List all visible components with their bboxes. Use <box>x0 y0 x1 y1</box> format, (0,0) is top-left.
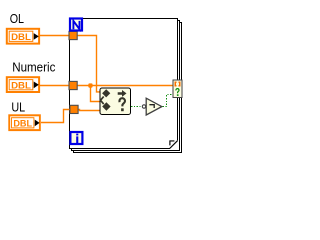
U1 arrow glyph <box>118 90 127 97</box>
terminal UL (DBL control) <box>9 115 40 130</box>
U1 less-than glyph <box>101 97 104 105</box>
for-loop corner fold mark <box>170 141 175 146</box>
terminal OL (DBL control) <box>7 29 39 44</box>
wire OL <box>39 36 100 92</box>
tunnel conditional glyph ? <box>176 89 179 94</box>
for-loop border <box>70 19 182 153</box>
N terminal (loop count) <box>70 19 82 31</box>
Not gate U2 <box>142 98 162 115</box>
In Range and Coerce U1 <box>100 88 131 115</box>
svg-text:UL: UL <box>11 100 25 115</box>
svg-text:Numeric: Numeric <box>12 59 56 74</box>
junction dot Numeric <box>88 83 92 87</box>
U1 upper diamond <box>102 89 110 97</box>
U1 lower diamond <box>102 102 110 110</box>
wire UL <box>41 110 100 123</box>
conditional indexing tunnel <box>173 80 182 98</box>
i terminal (loop iterator) <box>70 132 82 144</box>
terminal Numeric (DBL control) <box>7 77 39 92</box>
tunnel indexing glyph [] <box>175 82 181 87</box>
for-loop corner chamfer <box>170 141 178 149</box>
U2 not-sign glyph <box>149 105 154 108</box>
U1 question mark <box>119 98 125 106</box>
tunnel T1 (OL) <box>69 31 77 39</box>
wire Numeric <box>39 86 173 102</box>
boolean wire U1 to U2 <box>131 106 142 108</box>
boolean wire U2 to conditional tunnel <box>163 95 174 107</box>
tunnel T3 (UL) <box>70 105 78 113</box>
tunnel T2 (Numeric) <box>69 81 77 89</box>
svg-text:OL: OL <box>10 11 24 26</box>
